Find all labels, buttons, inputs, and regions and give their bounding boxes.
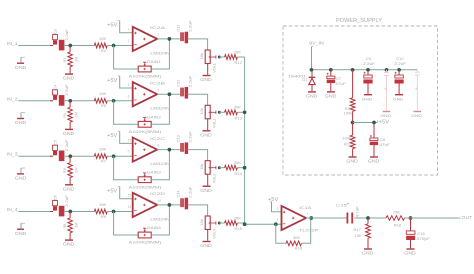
wire xyxy=(151,39,169,69)
svg-text:10k: 10k xyxy=(199,108,204,114)
svg-text:R13: R13 xyxy=(234,115,242,120)
power supply box xyxy=(283,26,438,175)
wire xyxy=(187,150,207,161)
capacitor C15 4.7uF xyxy=(336,202,359,223)
svg-text:+5V: +5V xyxy=(107,189,118,195)
wire xyxy=(64,211,95,213)
svg-text:R9: R9 xyxy=(101,214,107,219)
svg-text:IC2A: IC2A xyxy=(150,25,166,30)
svg-text:C6: C6 xyxy=(53,195,58,200)
svg-text:R4: R4 xyxy=(62,112,67,118)
svg-text:2.2uF: 2.2uF xyxy=(64,28,69,40)
connector IN_2 ground pin xyxy=(15,113,26,126)
svg-text:OUT: OUT xyxy=(462,215,473,221)
svg-text:6: 6 xyxy=(128,94,130,98)
svg-text:47uF: 47uF xyxy=(335,81,346,86)
svg-text:20K: 20K xyxy=(234,49,242,54)
wire xyxy=(107,100,133,102)
wire xyxy=(151,150,169,180)
svg-text:GAIN1: GAIN1 xyxy=(147,59,162,64)
svg-text:20K: 20K xyxy=(234,105,242,110)
svg-text:2.2uF: 2.2uF xyxy=(187,20,192,32)
svg-text:R1: R1 xyxy=(62,58,67,63)
ground xyxy=(362,95,373,102)
wire xyxy=(64,45,95,47)
junction xyxy=(168,148,172,152)
svg-text:1: 1 xyxy=(306,212,308,216)
capacitor C9 2.2uF xyxy=(363,56,375,94)
trimmer GAIN3 A100K(5MM) xyxy=(129,170,162,190)
svg-text:GND: GND xyxy=(404,251,416,256)
svg-text:R8: R8 xyxy=(62,224,67,229)
svg-text:GND: GND xyxy=(15,176,26,181)
svg-text:GND: GND xyxy=(346,159,358,164)
svg-text:A100K(5MM): A100K(5MM) xyxy=(129,184,162,189)
junction xyxy=(112,154,116,158)
resistor R17 15K xyxy=(354,218,371,248)
svg-text:R18: R18 xyxy=(394,222,402,227)
svg-text:VOL1: VOL1 xyxy=(212,63,217,73)
svg-text:GND: GND xyxy=(15,231,26,236)
svg-text:A100K(5MM): A100K(5MM) xyxy=(129,129,162,134)
svg-text:+5V: +5V xyxy=(107,23,118,29)
svg-text:47uF: 47uF xyxy=(379,142,390,147)
connector 9V_IN xyxy=(309,41,324,70)
svg-text:13: 13 xyxy=(128,205,132,209)
resistor R8 1M xyxy=(62,212,79,240)
trimmer GAIN2 A100K(5MM) xyxy=(129,114,162,134)
capacitor C4 2.2uF xyxy=(50,84,69,106)
capacitor C16 470pF xyxy=(406,218,431,248)
svg-text:C3: C3 xyxy=(53,29,58,34)
trimmer GAIN4 A100K(5MM) xyxy=(129,225,162,245)
svg-text:VOL2: VOL2 xyxy=(212,119,217,129)
wire xyxy=(306,217,347,219)
wire xyxy=(157,93,181,95)
svg-text:2.2uF: 2.2uF xyxy=(64,194,69,206)
svg-text:3: 3 xyxy=(276,207,278,211)
svg-text:2: 2 xyxy=(276,218,278,222)
svg-text:7: 7 xyxy=(158,88,160,92)
potentiometer VOL4 10k xyxy=(199,216,216,241)
supply +5V xyxy=(107,21,133,33)
capacitor bypass xyxy=(381,70,389,111)
resistor R11 100k xyxy=(342,123,355,157)
wire xyxy=(219,111,224,113)
svg-text:1M: 1M xyxy=(74,167,79,172)
ground xyxy=(346,157,358,164)
junction xyxy=(168,203,172,207)
svg-text:IC1A: IC1A xyxy=(299,205,311,210)
wire xyxy=(237,167,244,169)
ground xyxy=(368,157,380,164)
wire xyxy=(302,218,311,243)
svg-text:R11: R11 xyxy=(344,142,352,147)
svg-text:IC2D: IC2D xyxy=(150,191,165,196)
capacitor C3 2.2uF xyxy=(50,28,69,50)
wire xyxy=(405,217,461,219)
resistor R9 10K xyxy=(94,202,107,219)
svg-text:C4: C4 xyxy=(53,84,58,90)
junction xyxy=(168,92,172,96)
svg-text:GND: GND xyxy=(200,77,212,82)
svg-text:VOL3: VOL3 xyxy=(212,174,217,184)
ground xyxy=(200,186,212,193)
wire xyxy=(353,122,378,124)
junction xyxy=(112,44,116,48)
wire xyxy=(114,212,139,236)
capacitor C8 47uF xyxy=(370,123,391,157)
connector IN_4 xyxy=(7,207,19,213)
svg-text:2: 2 xyxy=(128,39,130,43)
junction xyxy=(243,110,247,114)
svg-text:1M: 1M xyxy=(74,57,79,62)
ground xyxy=(63,240,75,247)
junction xyxy=(409,216,413,220)
junction xyxy=(243,166,247,170)
wire xyxy=(219,167,224,169)
ground xyxy=(200,242,212,249)
wire xyxy=(114,156,139,180)
wire xyxy=(157,38,181,40)
svg-text:9V_IN: 9V_IN xyxy=(309,41,324,47)
supply +5V xyxy=(107,76,133,88)
junction xyxy=(218,111,221,114)
wire xyxy=(237,56,244,58)
svg-text:+5V: +5V xyxy=(379,120,390,126)
capacitor C11 2.2uF xyxy=(175,20,192,44)
svg-text:A100K(5MM): A100K(5MM) xyxy=(129,74,162,79)
wire xyxy=(19,100,53,102)
svg-text:9: 9 xyxy=(128,150,130,154)
svg-text:GND: GND xyxy=(325,94,337,99)
wire xyxy=(151,94,169,124)
label POWER_SUPPLY xyxy=(336,18,382,24)
svg-text:A100K(5MM): A100K(5MM) xyxy=(129,240,162,245)
wire xyxy=(64,155,95,157)
wire xyxy=(187,205,207,216)
wire xyxy=(107,45,133,47)
op-amp IC2C LM324N xyxy=(128,136,170,166)
op-amp IC1A TL072P xyxy=(276,205,319,232)
junction xyxy=(68,99,72,103)
wire rail xyxy=(312,69,418,71)
capacitor C13 2.2uF xyxy=(175,130,192,154)
capacitor C10 2.2uF xyxy=(394,56,406,94)
junction xyxy=(218,56,221,59)
resistor R1 1M xyxy=(62,46,79,74)
junction xyxy=(309,216,313,220)
junction xyxy=(366,216,370,220)
potentiometer VOL2 10k xyxy=(199,105,216,130)
svg-text:R7: R7 xyxy=(101,159,107,164)
wire xyxy=(151,205,169,235)
junction xyxy=(68,154,72,158)
resistor R14 20K xyxy=(225,160,243,176)
wire xyxy=(157,204,181,206)
svg-text:LM324N: LM324N xyxy=(150,106,170,111)
resistor R7 10K xyxy=(94,147,107,164)
ground xyxy=(63,129,75,136)
connector IN_1 ground pin xyxy=(15,57,26,70)
svg-text:R15: R15 xyxy=(234,226,242,231)
svg-text:470pF: 470pF xyxy=(417,236,431,241)
ground xyxy=(200,76,212,83)
wire xyxy=(157,149,181,151)
svg-text:10k: 10k xyxy=(199,53,204,59)
svg-text:10K: 10K xyxy=(99,36,107,41)
resistor R4 1M xyxy=(62,101,79,129)
svg-text:R14: R14 xyxy=(234,171,242,176)
svg-text:GND: GND xyxy=(15,65,26,70)
ground xyxy=(393,95,404,102)
svg-text:C13: C13 xyxy=(175,135,180,142)
op-amp IC2A LM324N xyxy=(128,25,170,55)
svg-text:C12: C12 xyxy=(175,80,180,87)
svg-text:GND: GND xyxy=(306,94,318,99)
resistor R18 15K xyxy=(386,209,405,227)
wire xyxy=(19,155,53,157)
svg-text:+5V: +5V xyxy=(107,78,118,84)
svg-text:2.2uF: 2.2uF xyxy=(64,84,69,96)
capacitor C6 2.2uF xyxy=(50,194,69,216)
op-amp IC2B LM324N xyxy=(128,80,170,110)
svg-text:2.2uF: 2.2uF xyxy=(187,186,192,198)
svg-text:10K: 10K xyxy=(99,202,107,207)
svg-text:LM324N: LM324N xyxy=(150,161,170,166)
svg-text:GND: GND xyxy=(200,188,212,193)
capacitor C7 47uF xyxy=(327,70,347,91)
ground xyxy=(381,112,392,119)
svg-text:10k: 10k xyxy=(199,219,204,225)
wire xyxy=(19,211,53,213)
junction xyxy=(168,37,172,41)
svg-text:R16: R16 xyxy=(295,246,303,251)
trimmer GAIN1 A100K(5MM) xyxy=(129,59,162,79)
supply +5V xyxy=(107,131,133,143)
junction xyxy=(112,99,116,103)
connector IN_1 xyxy=(7,41,19,47)
svg-text:GND: GND xyxy=(63,186,75,191)
svg-text:100k: 100k xyxy=(342,136,352,141)
junction xyxy=(351,68,355,72)
capacitor C14 2.2uF xyxy=(175,186,192,210)
wire summing bus xyxy=(245,57,282,224)
supply +5V node xyxy=(378,120,390,126)
ground xyxy=(306,92,318,99)
ground xyxy=(63,74,75,81)
svg-text:IC2C: IC2C xyxy=(150,136,165,141)
supply +5V xyxy=(268,197,282,212)
wire xyxy=(107,211,133,213)
junction xyxy=(366,68,370,72)
svg-text:2.2uF: 2.2uF xyxy=(187,75,192,87)
svg-text:20K: 20K xyxy=(234,215,242,220)
svg-text:TL072P: TL072P xyxy=(299,227,319,232)
svg-text:LM324N: LM324N xyxy=(150,50,170,55)
svg-text:30K: 30K xyxy=(293,235,301,240)
supply +5V xyxy=(107,187,133,199)
junction xyxy=(372,121,376,125)
capacitor C12 2.2uF xyxy=(175,75,192,99)
wire xyxy=(187,39,207,50)
svg-text:C11: C11 xyxy=(175,25,180,32)
svg-text:3: 3 xyxy=(128,28,130,32)
ground xyxy=(362,249,374,256)
wire xyxy=(64,100,95,102)
svg-text:GND: GND xyxy=(393,96,404,101)
wire xyxy=(107,155,133,157)
op-amp IC2D LM324N xyxy=(128,191,170,221)
ground xyxy=(411,112,422,119)
svg-text:5: 5 xyxy=(128,83,130,87)
wire feedback xyxy=(276,224,286,243)
svg-text:GND: GND xyxy=(362,96,373,101)
svg-text:20K: 20K xyxy=(234,160,242,165)
wire xyxy=(354,217,386,219)
svg-text:1: 1 xyxy=(158,33,160,37)
junction xyxy=(68,210,72,214)
svg-text:12: 12 xyxy=(128,194,132,198)
svg-text:POWER_SUPPLY: POWER_SUPPLY xyxy=(336,18,382,24)
svg-text:14: 14 xyxy=(158,199,162,203)
resistor R6 1M xyxy=(62,156,79,184)
svg-text:10k: 10k xyxy=(199,164,204,170)
resistor R10 100k xyxy=(344,70,355,123)
svg-text:GND: GND xyxy=(362,251,374,256)
resistor R12 20K xyxy=(225,49,243,65)
svg-text:IN_1: IN_1 xyxy=(7,41,18,47)
svg-text:10: 10 xyxy=(128,138,132,142)
diode D1 1N4001 xyxy=(288,70,315,91)
svg-text:4.7uF: 4.7uF xyxy=(354,205,359,217)
ground xyxy=(200,131,212,138)
svg-text:2.2uF: 2.2uF xyxy=(64,139,69,151)
wire xyxy=(19,45,53,47)
svg-text:+5V: +5V xyxy=(107,133,118,139)
wire xyxy=(219,56,224,58)
svg-text:GAIN4: GAIN4 xyxy=(147,225,162,230)
svg-text:100k: 100k xyxy=(344,110,354,115)
svg-text:1M: 1M xyxy=(74,223,79,228)
svg-text:GND: GND xyxy=(381,113,392,118)
wire xyxy=(114,101,139,125)
svg-text:2.2uF: 2.2uF xyxy=(394,61,406,66)
svg-text:GND: GND xyxy=(63,76,75,81)
wire xyxy=(237,222,244,224)
ground xyxy=(325,92,337,99)
svg-text:R5: R5 xyxy=(101,103,107,108)
junction xyxy=(68,44,72,48)
wire xyxy=(187,94,207,105)
resistor R2 10K xyxy=(94,36,107,53)
svg-text:GND: GND xyxy=(200,132,212,137)
svg-text:D1: D1 xyxy=(302,77,308,82)
svg-text:LM324N: LM324N xyxy=(150,216,170,221)
svg-text:IN_4: IN_4 xyxy=(7,207,18,213)
svg-text:R12: R12 xyxy=(234,60,242,65)
svg-text:GND: GND xyxy=(368,159,380,164)
junction xyxy=(218,166,221,169)
svg-text:C5: C5 xyxy=(53,140,58,145)
svg-text:10K: 10K xyxy=(99,91,107,96)
resistor R13 20K xyxy=(225,105,243,121)
svg-text:10K: 10K xyxy=(99,147,107,152)
svg-text:C15: C15 xyxy=(336,203,348,208)
svg-text:R6: R6 xyxy=(62,168,67,173)
junction xyxy=(310,68,314,72)
ground xyxy=(404,249,416,256)
junction xyxy=(274,222,278,226)
svg-text:R2: R2 xyxy=(101,48,107,53)
svg-text:GND: GND xyxy=(63,131,75,136)
connector IN_4 ground pin xyxy=(15,223,26,236)
svg-text:IC2B: IC2B xyxy=(150,80,166,85)
capacitor C5 2.2uF xyxy=(50,139,69,161)
connector IN_3 xyxy=(7,152,19,158)
potentiometer VOL3 10k xyxy=(199,161,216,186)
junction xyxy=(385,68,389,72)
junction xyxy=(243,222,247,226)
wire xyxy=(114,46,139,70)
resistor R5 10K xyxy=(94,91,107,108)
svg-text:15K: 15K xyxy=(355,233,363,238)
connector IN_2 xyxy=(7,96,19,102)
svg-text:C14: C14 xyxy=(175,190,180,198)
resistor R16 30K xyxy=(286,235,303,251)
wire xyxy=(219,222,224,224)
ground xyxy=(63,185,75,192)
svg-text:+5V: +5V xyxy=(268,197,279,203)
svg-text:IN_2: IN_2 xyxy=(7,96,18,102)
svg-text:GND: GND xyxy=(411,113,422,118)
svg-text:R17: R17 xyxy=(354,227,362,232)
connector IN_3 ground pin xyxy=(15,168,26,181)
wire xyxy=(237,111,244,113)
potentiometer VOL1 10k xyxy=(199,50,216,75)
svg-text:GND: GND xyxy=(200,243,212,248)
svg-text:GAIN3: GAIN3 xyxy=(147,170,162,175)
svg-text:IN_3: IN_3 xyxy=(7,152,18,158)
svg-text:8: 8 xyxy=(158,144,160,148)
capacitor bypass xyxy=(415,70,420,111)
junction xyxy=(218,222,221,225)
svg-text:GND: GND xyxy=(15,120,26,125)
junction xyxy=(351,121,355,125)
svg-text:2.2uF: 2.2uF xyxy=(187,130,192,142)
svg-text:GND: GND xyxy=(63,242,75,247)
svg-text:15K: 15K xyxy=(393,209,401,214)
svg-text:2.2uF: 2.2uF xyxy=(363,61,375,66)
resistor R15 20K xyxy=(225,215,243,231)
svg-text:VOL4: VOL4 xyxy=(212,228,217,238)
junction xyxy=(397,68,401,72)
svg-text:1M: 1M xyxy=(74,112,79,117)
pin OUT xyxy=(459,215,473,221)
svg-text:GAIN2: GAIN2 xyxy=(147,114,162,119)
junction xyxy=(329,68,333,72)
junction xyxy=(112,210,116,214)
